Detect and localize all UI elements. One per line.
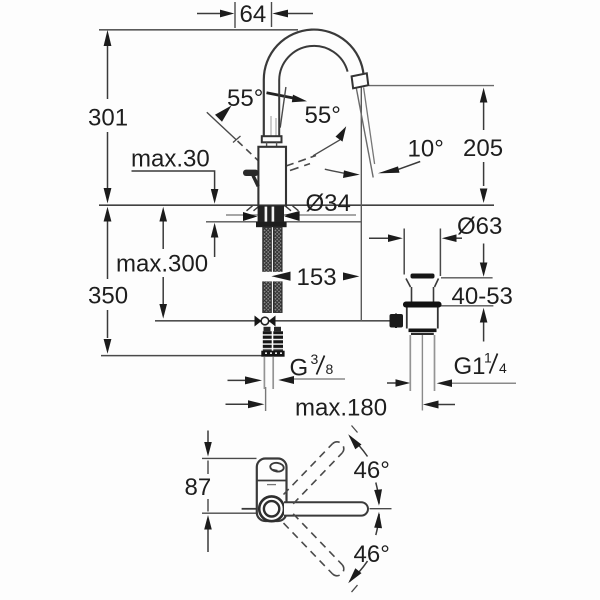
svg-text:87: 87 [185, 474, 212, 501]
left small tick top view [242, 508, 257, 510]
washer wedge left [243, 212, 258, 221]
wire deck underside line [206, 221, 362, 223]
arrow G3/8 right [278, 376, 294, 384]
wire spout outlet reference line [369, 85, 494, 87]
arrow max.180 left [248, 400, 264, 408]
drain tailpipe right [434, 335, 436, 391]
wire G1 1/4 left arrow tail [387, 382, 396, 384]
arrow G3/8 left [245, 376, 262, 384]
thread base bar [261, 351, 284, 357]
87 ext line bottom [202, 512, 258, 514]
neck line right [276, 142, 278, 147]
supply pipe right [272, 357, 274, 389]
svg-text:max.300: max.300 [116, 251, 208, 278]
arrow 153 left [271, 272, 290, 281]
node Ø63 extension line right [439, 229, 441, 277]
wire 10-degree arc tail [325, 169, 345, 173]
wire 205 dimension line lower [483, 162, 485, 186]
wire 64 right arrow tail [288, 13, 313, 15]
lever bar top view [284, 502, 368, 515]
wire swivel-left extension line [207, 112, 236, 140]
wire G1 1/4 underline leader [452, 382, 516, 384]
wire max.30 lower tail [214, 236, 216, 257]
arrow 55-right angular [336, 126, 347, 141]
arrow max.30 up (below deck) [211, 223, 219, 238]
lever handle [243, 170, 259, 176]
body divider line top view [257, 480, 286, 482]
arrow G1 1/4 left [396, 379, 411, 387]
wire max.300 dimension line lower [162, 277, 164, 304]
arrow Ø34 left [284, 211, 300, 219]
46 upper arc outer segment [350, 436, 368, 456]
node swivel-left tick [233, 136, 241, 143]
node linkage coupler bowtie right [269, 316, 276, 327]
lever lower stroke [253, 176, 258, 187]
dashed lever up position [284, 442, 344, 504]
threaded end right [273, 331, 283, 351]
arrow max.30 down [211, 189, 219, 204]
87 lower tail [207, 530, 209, 553]
svg-text:55°: 55° [305, 102, 341, 129]
arrow 10-degree arc head [343, 170, 360, 178]
drain lever stem [395, 314, 397, 329]
drain knob taper right [435, 279, 439, 288]
wire 301 dimension line lower [107, 132, 109, 188]
arrow max.300 up [159, 207, 167, 222]
node linkage coupler bowtie left [255, 316, 262, 327]
wire 40-53 top reference line [441, 277, 493, 279]
drain tailpipe left [409, 335, 411, 391]
svg-text:Ø63: Ø63 [457, 213, 502, 240]
wire max.180 left arrow tail [226, 403, 250, 405]
washer tick right 2 [293, 206, 299, 211]
wire top reference line [99, 29, 298, 31]
hose tail connector right [274, 327, 281, 332]
svg-text:46°: 46° [354, 457, 390, 484]
drain bottom lip [411, 333, 434, 335]
arrow 10-degree head [378, 166, 400, 173]
wire outlet plumb extension line [360, 88, 362, 322]
supply pipe left [263, 357, 265, 389]
wire 350 dimension line upper [107, 221, 109, 279]
svg-text:G: G [290, 355, 309, 382]
drain bottom bar [409, 329, 437, 333]
arrow 55-left thick leader [267, 93, 295, 98]
arrow 55-left angular [215, 106, 232, 122]
46 lower arc upper segment [376, 514, 379, 535]
87 upper tail [207, 431, 209, 443]
washer tick left 2 [254, 206, 260, 211]
arrow 46 lower near [374, 512, 382, 529]
wire Ø63 right arrow tail [456, 237, 462, 239]
outlet oval top view [270, 462, 285, 472]
svg-text:40-53: 40-53 [452, 283, 513, 310]
arrow max.300 down [159, 304, 167, 319]
svg-text:max.180: max.180 [295, 395, 387, 422]
wire swivel-left dashed position [238, 141, 260, 162]
arrow 205 up [480, 88, 488, 103]
wire pop-up rod / max.300 level line [155, 320, 391, 322]
87 ext line top [202, 457, 257, 459]
threaded shank block [258, 206, 284, 222]
node extension line 64 right [271, 2, 273, 27]
washer tick right 1 [285, 206, 291, 211]
neck line left [266, 142, 268, 147]
arrow 205 down [480, 189, 488, 204]
wire 40-53 upper leader [483, 244, 485, 264]
shank slot left [265, 207, 268, 222]
arrow 46 upper near [374, 489, 382, 506]
wire 64 left arrow tail [197, 13, 221, 15]
shank nut band [256, 222, 287, 227]
svg-text:350: 350 [88, 283, 128, 310]
swivel ring outer [259, 496, 284, 521]
shank slot right [272, 207, 275, 222]
spout outlet cap [352, 73, 369, 88]
arrow 87 up [204, 515, 212, 530]
svg-text:G1: G1 [454, 353, 486, 380]
wire 350 dimension line lower [107, 310, 109, 338]
label G1 1/4 slash [490, 354, 498, 374]
swivel ring inner [264, 501, 279, 516]
drain knob top bar [411, 274, 435, 279]
arrow 46 upper far [348, 434, 361, 449]
svg-text:10°: 10° [408, 136, 444, 163]
hose tail connector left [264, 327, 271, 332]
wire 40-53 bottom reference line [440, 305, 494, 307]
node linkage coupler circle [261, 317, 269, 325]
drain tailpipe center extension [421, 335, 423, 411]
arrow 40-53 down [480, 263, 488, 277]
spout inner arc [279, 46, 347, 136]
46 upper arc lower segment [376, 483, 379, 504]
washer tick left 1 [247, 206, 253, 211]
wire Ø34 leader line [226, 214, 356, 216]
wire Ø63 left arrow tail [369, 237, 388, 239]
arrow 350 down [104, 339, 112, 354]
arrow G1 1/4 right [437, 379, 452, 387]
dashed lever down position [284, 514, 344, 576]
arrow 301 down [104, 188, 112, 204]
arrow 153 right [343, 272, 359, 280]
drain lever knob [390, 314, 404, 328]
svg-text:4: 4 [499, 360, 507, 376]
svg-text:55°: 55° [227, 85, 263, 112]
svg-text:301: 301 [88, 105, 128, 132]
wire swivel-right dashed position [286, 156, 316, 167]
wire deck surface line [99, 204, 494, 206]
node max.180 left extension line [265, 387, 267, 411]
svg-text:8: 8 [326, 361, 334, 377]
arrow 64 left [220, 10, 234, 18]
wire 55-right leader line [313, 140, 340, 156]
wire G3/8 underline leader [293, 378, 345, 380]
node extension line 64 left [234, 2, 236, 28]
wire water stream right [364, 88, 375, 165]
arrow Ø63 right [442, 234, 457, 242]
arrow 55-left leader head [292, 95, 307, 103]
arrow 46 lower far [348, 568, 361, 583]
body outline top view [257, 459, 287, 522]
46 upper tip extension [352, 426, 358, 433]
wire 205 dimension line upper [483, 102, 485, 130]
svg-text:max.30: max.30 [131, 146, 210, 173]
spout outer arc [264, 30, 364, 137]
label G3/8 slash [317, 356, 325, 375]
hose notch for 153 arrow [262, 272, 293, 282]
wire water stream left [356, 88, 373, 178]
wire max.180 right arrow tail [437, 404, 455, 406]
svg-text:46°: 46° [354, 541, 390, 568]
drain flange bar [403, 302, 442, 308]
arrow Ø63 left [388, 234, 403, 242]
drain body left side [406, 308, 408, 329]
spout inner highlight line 2 [275, 118, 277, 136]
thread base dots [265, 352, 282, 354]
svg-text:1: 1 [484, 350, 492, 366]
wire 10-degree elbow leader [399, 162, 421, 170]
node Ø63 extension line left [403, 229, 405, 275]
arrow 153 left duplicate over notch [271, 272, 290, 281]
drain knob taper left [406, 279, 411, 288]
wire 40-53 lower tail [483, 322, 485, 342]
lever centerline extension [370, 508, 392, 510]
87 inner segment lower [207, 499, 209, 512]
svg-text:205: 205 [463, 135, 503, 162]
faucet body [258, 147, 286, 206]
46 lower arc outer segment [350, 561, 368, 581]
46 lower tip extension [352, 585, 358, 592]
arrow 40-53 up [480, 308, 488, 323]
spout inner highlight line [270, 116, 272, 136]
drain body right side [437, 308, 439, 329]
threaded end left [263, 331, 272, 351]
wire 350 bottom reference line [101, 355, 283, 357]
wire max.30 shelf [132, 171, 215, 191]
drain neck left [411, 287, 413, 302]
wire spout tilt line [280, 87, 286, 128]
svg-text:3: 3 [311, 351, 319, 367]
arrow 87 down [204, 442, 212, 457]
wire swivel-right dash second row [290, 164, 310, 171]
wire 301 dimension line upper [107, 46, 109, 99]
arrow 64 right [272, 10, 288, 18]
svg-text:Ø34: Ø34 [306, 190, 351, 217]
87 inner segment upper [207, 461, 209, 475]
oval inner mark [272, 470, 278, 471]
collar below spout [262, 136, 282, 142]
arrow 301 up [104, 30, 112, 46]
body small tick [267, 484, 276, 486]
arrow 350 up [104, 207, 112, 222]
washer wedge right [284, 212, 299, 221]
drain neck right [433, 287, 435, 302]
supply hose right [274, 227, 282, 312]
wire max.300 dimension line upper [162, 220, 164, 249]
wire G3/8 left arrow tail [228, 379, 246, 381]
arrow max.180 right [423, 401, 439, 409]
svg-text:153: 153 [297, 264, 337, 291]
supply hose left [263, 227, 271, 312]
svg-text:64: 64 [240, 1, 267, 28]
